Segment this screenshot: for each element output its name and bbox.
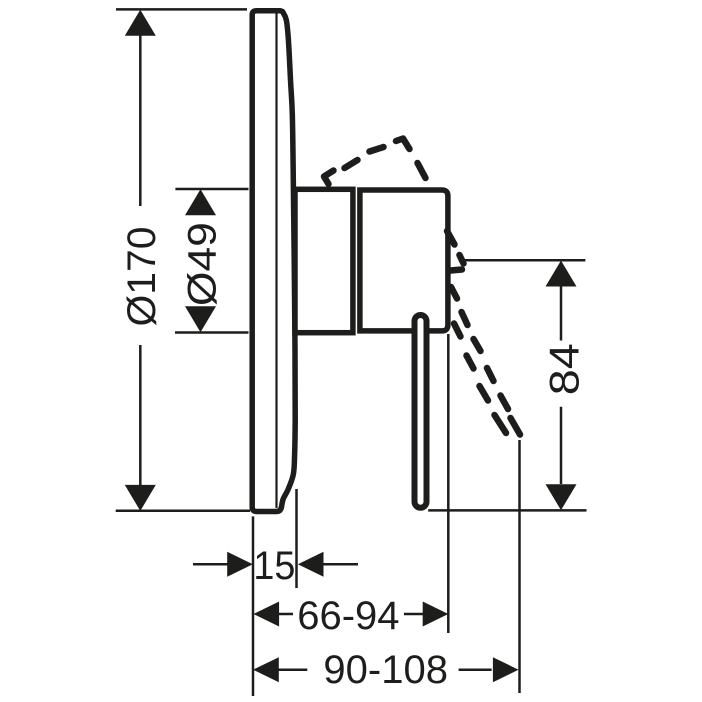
svg-text:90-108: 90-108 [323, 648, 448, 692]
svg-text:Ø170: Ø170 [120, 227, 164, 327]
svg-text:15: 15 [253, 544, 295, 588]
dashed lever outline (up position) [324, 139, 426, 185]
escutcheon plate (side view) [252, 11, 295, 512]
dimension 66-94 [278, 613, 423, 616]
dimension Ø170 [116, 9, 250, 510]
valve body sleeve (left section) [295, 189, 353, 332]
dimension 90-108 [278, 668, 492, 671]
plate inner edge line [275, 13, 277, 508]
svg-text:66-94: 66-94 [297, 594, 399, 638]
dimension 84 [428, 260, 586, 510]
handle lever (solid, down position) [415, 315, 427, 508]
valve body cartridge (right section) [360, 190, 448, 331]
svg-text:Ø49: Ø49 [181, 222, 225, 306]
svg-text:84: 84 [541, 343, 588, 395]
dimension Ø49 [175, 189, 249, 333]
dimension 15 [193, 563, 358, 566]
extension lines [253, 334, 520, 696]
dashed lever outline (pulled-down position) [447, 231, 520, 435]
